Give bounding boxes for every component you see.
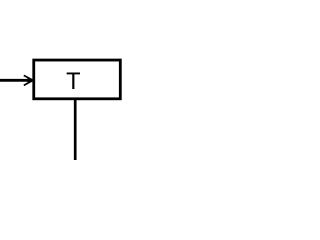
wire: input arrow shaft xyxy=(0,79,32,82)
svg-text:T: T xyxy=(66,69,80,95)
wire: output line from box bottom xyxy=(74,99,77,161)
block T (transition box) xyxy=(34,60,121,99)
arrowhead upper barb xyxy=(24,75,33,80)
arrowhead lower barb xyxy=(24,81,33,86)
arrowhead tip fill xyxy=(28,78,33,83)
